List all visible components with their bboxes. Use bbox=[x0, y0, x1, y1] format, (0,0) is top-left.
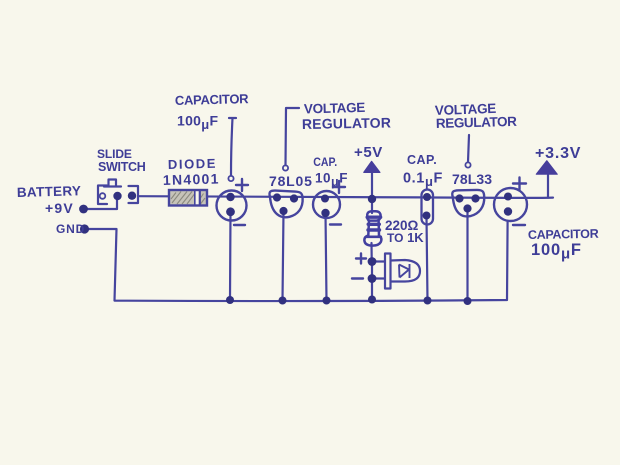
svg-text:SLIDE: SLIDE bbox=[97, 147, 132, 161]
svg-text:GND: GND bbox=[56, 222, 85, 236]
svg-text:+9V: +9V bbox=[45, 200, 74, 216]
svg-text:TO 1K: TO 1K bbox=[387, 230, 424, 245]
svg-text:REGULATOR: REGULATOR bbox=[436, 114, 518, 131]
svg-text:CAPACITOR: CAPACITOR bbox=[175, 91, 250, 108]
svg-text:78L05: 78L05 bbox=[269, 173, 313, 189]
svg-text:CAP.: CAP. bbox=[407, 153, 437, 167]
svg-text:REGULATOR: REGULATOR bbox=[302, 114, 391, 132]
svg-text:78L33: 78L33 bbox=[452, 171, 492, 187]
svg-text:VOLTAGE: VOLTAGE bbox=[304, 100, 366, 117]
svg-text:+5V: +5V bbox=[354, 144, 383, 161]
svg-text:CAPACITOR: CAPACITOR bbox=[528, 227, 599, 242]
svg-text:SWITCH: SWITCH bbox=[98, 160, 146, 174]
svg-text:1N4001: 1N4001 bbox=[163, 171, 220, 188]
svg-text:0.1μF: 0.1μF bbox=[403, 171, 443, 190]
svg-text:BATTERY: BATTERY bbox=[17, 183, 82, 200]
svg-text:CAP.: CAP. bbox=[313, 156, 337, 169]
svg-text:DIODE: DIODE bbox=[168, 156, 218, 172]
svg-text:+3.3V: +3.3V bbox=[535, 145, 581, 162]
